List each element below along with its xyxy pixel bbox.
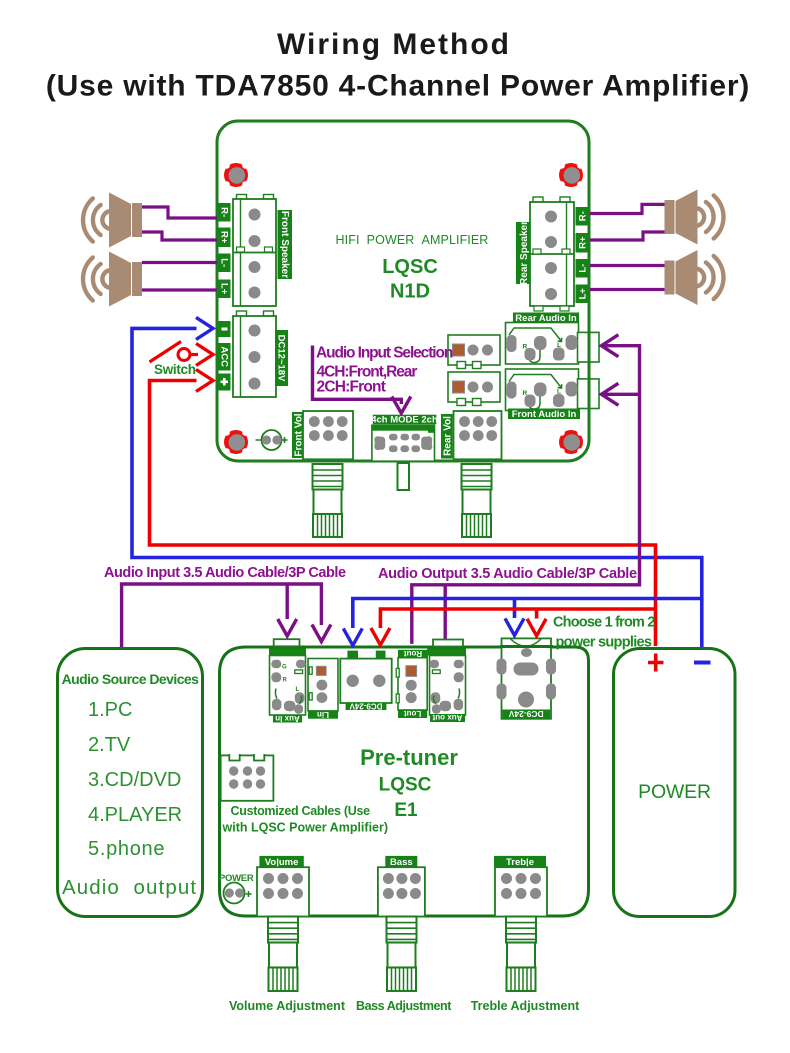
svg-text:LQSC: LQSC: [382, 256, 438, 278]
terminal pin label R+ right: [576, 233, 589, 253]
svg-text:L-: L-: [218, 258, 229, 267]
svg-text:Volume Adjustment: Volume Adjustment: [229, 999, 346, 1013]
pin label minus: [218, 321, 231, 337]
svg-text:E1: E1: [394, 800, 418, 821]
volume label: [259, 856, 303, 868]
audio input selection note: [316, 345, 453, 396]
svg-text:POWER: POWER: [638, 781, 711, 803]
svg-text:2CH:Front: 2CH:Front: [317, 379, 386, 396]
svg-text:Audio Output 3.5 Audio Cable/3: Audio Output 3.5 Audio Cable/3P Cable: [378, 566, 637, 582]
DC12-18V label: [275, 330, 288, 386]
aux out jack: [427, 649, 466, 716]
wire power minus blue: [132, 317, 702, 647]
svg-text:G: G: [282, 665, 287, 671]
svg-text:DC9-24V: DC9-24V: [349, 701, 383, 710]
adjustment captions: [229, 999, 580, 1013]
svg-text:R: R: [523, 390, 528, 397]
DC power terminal block: [233, 311, 276, 397]
svg-text:Lout: Lout: [404, 709, 422, 718]
svg-text:Rear Speaker: Rear Speaker: [519, 221, 530, 285]
wire rear speaker L+: [590, 288, 665, 291]
aux in label: [273, 714, 302, 723]
front vol label: [292, 412, 305, 458]
svg-text:Wiring Method: Wiring Method: [277, 28, 511, 61]
svg-text:R+: R+: [578, 236, 589, 249]
mode switch lever: [398, 463, 410, 490]
svg-text:L: L: [296, 687, 300, 693]
svg-text:4ch MODE 2ch: 4ch MODE 2ch: [371, 415, 438, 426]
aux in jack: [269, 649, 306, 716]
aux out tab: [433, 640, 463, 647]
front audio in label: [508, 409, 580, 421]
customized cables note: [222, 804, 389, 835]
svg-text:3.CD/DVD: 3.CD/DVD: [88, 769, 181, 791]
volume connector: [257, 867, 309, 916]
bass connector: [378, 867, 425, 916]
lout label: [398, 709, 427, 718]
rear vol potentiometer: [462, 464, 492, 537]
amplifier board outline: [217, 121, 589, 461]
switch symbol: [150, 342, 214, 366]
svg-text:Lin: Lin: [317, 710, 329, 719]
speaker rear left: [665, 250, 724, 305]
svg-text:R: R: [283, 678, 288, 684]
choose power note: [553, 615, 655, 651]
speaker front right: [83, 193, 142, 248]
front vol connector: [303, 411, 353, 459]
4ch mode switch: [372, 425, 435, 461]
svg-text:Front Speaker: Front Speaker: [279, 211, 290, 278]
svg-text:Front Audio In: Front Audio In: [512, 409, 577, 420]
mounting hole top-right: [559, 163, 583, 187]
svg-text:R-: R-: [218, 207, 229, 217]
aux in tab: [274, 639, 300, 646]
dc9-24v screw terminal: [340, 659, 391, 703]
svg-text:Bass Adjustment: Bass Adjustment: [356, 999, 452, 1013]
svg-text:power supplies: power supplies: [556, 635, 652, 651]
svg-text:Rout: Rout: [404, 649, 423, 658]
front audio in jack: [506, 369, 600, 411]
power box terminals: [638, 654, 711, 804]
svg-text:4.PLAYER: 4.PLAYER: [88, 804, 182, 826]
svg-text:L: L: [557, 389, 561, 396]
svg-text:Choose 1 from 2: Choose 1 from 2: [553, 615, 655, 631]
switch text: [154, 362, 196, 377]
svg-text:R+: R+: [218, 231, 229, 244]
volume potentiometer: [268, 917, 298, 991]
svg-text:R-: R-: [578, 211, 589, 221]
wire front speaker R+: [142, 232, 217, 240]
rear 4ch connector: [448, 335, 500, 369]
terminal pin label L- right: [576, 259, 589, 278]
mounting hole bottom-left: [224, 430, 248, 454]
svg-text:Customized Cables (Use: Customized Cables (Use: [231, 804, 371, 818]
svg-text:L: L: [557, 342, 561, 349]
wire front speaker R-: [142, 207, 217, 218]
svg-text:DC12~18V: DC12~18V: [275, 335, 286, 382]
power supply box: [614, 649, 736, 917]
svg-text:1.PC: 1.PC: [88, 699, 132, 721]
svg-text:Switch: Switch: [154, 362, 196, 377]
board title text: [336, 233, 489, 303]
audio source devices text: [62, 671, 200, 899]
dc barrel jack label: [502, 709, 550, 719]
dc barrel jack: [497, 638, 557, 718]
terminal pin label R+: [218, 228, 231, 248]
lout connector: [396, 658, 427, 710]
wire front speaker L-: [142, 261, 217, 264]
svg-text:Pre-tuner: Pre-tuner: [360, 745, 458, 770]
pre-tuner title: [360, 745, 458, 821]
audio input cable label: [104, 565, 346, 581]
pin label plus: [218, 374, 231, 391]
mounting hole top-left: [224, 163, 248, 187]
svg-text:R: R: [523, 344, 528, 351]
svg-text:Audio output: Audio output: [62, 876, 197, 899]
treble connector: [495, 867, 547, 916]
wire front speaker L+: [142, 288, 217, 291]
terminal pin label L-: [218, 254, 231, 273]
svg-text:Aux In: Aux In: [275, 714, 300, 723]
rear vol label: [441, 414, 454, 459]
bass potentiometer: [387, 917, 417, 991]
rear speaker label: [516, 221, 531, 285]
front speaker label: [278, 210, 293, 279]
pin label ACC: [218, 343, 231, 371]
front 4ch connector: [448, 372, 500, 406]
treble label: [494, 856, 546, 868]
rear audio in jack: [506, 323, 600, 365]
dc9-24v terminal tabs: [347, 651, 385, 659]
board right edge over jacks: [588, 320, 591, 414]
lin label: [308, 710, 338, 719]
svg-text:L-: L-: [578, 264, 589, 273]
aux out label: [430, 713, 465, 722]
dc9-24v terminal label: [346, 701, 387, 710]
terminal pin label L+: [218, 280, 231, 299]
wire power plus red: [150, 370, 656, 647]
front speaker terminal block: [233, 195, 276, 307]
front vol potentiometer: [313, 464, 343, 537]
speaker front left: [83, 252, 142, 307]
rear speaker terminal block: [530, 197, 574, 311]
tuner power LED: [219, 873, 254, 904]
svg-text:HIFI POWER AMPLIFIER: HIFI POWER AMPLIFIER: [336, 233, 489, 247]
svg-text:N1D: N1D: [390, 281, 430, 303]
wire branch to front audio in: [601, 383, 639, 405]
svg-text:LQSC: LQSC: [379, 775, 432, 796]
lin connector: [308, 659, 338, 711]
wire rear speaker L-: [590, 264, 665, 267]
mounting hole bottom-right: [559, 430, 583, 454]
wire dc terminal plus red: [371, 609, 656, 645]
svg-text:L+: L+: [578, 288, 589, 300]
svg-text:Treble Adjustment: Treble Adjustment: [471, 999, 580, 1013]
wire rear speaker R-: [590, 204, 665, 213]
board top edge over barrel jack: [500, 645, 553, 648]
terminal pin label R- right: [576, 207, 589, 226]
svg-text:Audio Source Devices: Audio Source Devices: [62, 671, 200, 687]
bass label: [385, 856, 417, 868]
wire rear speaker R+: [590, 232, 665, 240]
treble potentiometer: [506, 917, 536, 991]
svg-text:DC9-24V: DC9-24V: [508, 709, 543, 719]
speaker rear right: [665, 190, 724, 245]
svg-text:L+: L+: [218, 283, 229, 295]
wire audio out to rear audio in: [412, 335, 640, 644]
terminal pin label L+ right: [576, 285, 589, 304]
rear vol connector: [454, 411, 502, 459]
rear audio in label: [513, 313, 579, 325]
wire branch to aux out tab: [444, 585, 447, 639]
svg-text:Aux out: Aux out: [432, 713, 462, 722]
svg-text:Rear Vol: Rear Vol: [443, 416, 454, 456]
pre-tuner board outline: [220, 647, 589, 916]
svg-text:Audio Input Selection: Audio Input Selection: [316, 345, 453, 362]
rout label: [398, 649, 428, 658]
terminal pin label R-: [218, 203, 231, 222]
4ch mode label: [371, 415, 438, 426]
svg-text:5.phone: 5.phone: [88, 838, 165, 860]
wire dc terminal minus blue: [343, 599, 702, 646]
audio output cable label: [378, 566, 637, 582]
audio source devices box: [58, 649, 203, 917]
wire source to aux in: [122, 584, 331, 647]
svg-text:(Use with TDA7850 4-Channel Po: (Use with TDA7850 4-Channel Power Amplif…: [46, 70, 750, 103]
svg-text:2.TV: 2.TV: [88, 734, 131, 756]
customized cable connector: [221, 754, 274, 801]
svg-text:ACC: ACC: [218, 346, 229, 367]
svg-text:Audio Input 3.5 Audio Cable/3P: Audio Input 3.5 Audio Cable/3P Cable: [104, 565, 346, 581]
amp power LED: [256, 430, 288, 450]
svg-text:with LQSC Power Amplifier): with LQSC Power Amplifier): [222, 821, 389, 835]
selection pointer wire: [313, 346, 411, 414]
